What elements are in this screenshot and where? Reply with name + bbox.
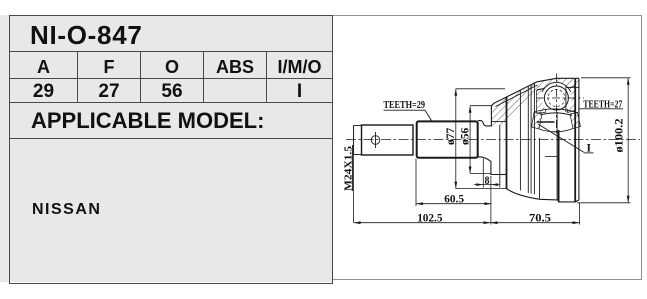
splined shaft section: [417, 121, 478, 157]
arrow 102.5 right: [484, 221, 491, 224]
window edge line f: [539, 138, 541, 199]
dim phi77 line: [455, 89, 457, 189]
svg-text:70.5: 70.5: [529, 212, 551, 224]
arrow phi77 bottom: [454, 182, 457, 189]
svg-text:8: 8: [485, 175, 490, 187]
window edge line d: [530, 85, 532, 194]
svg-text:ø77: ø77: [445, 128, 457, 146]
arrow 8 left: [476, 183, 483, 186]
svg-text:ø56: ø56: [460, 128, 472, 146]
inner race bore lower mark: [545, 156, 558, 158]
dim 102.5 extension left: [353, 126, 355, 223]
arrow 8 right: [491, 183, 498, 186]
stem center mark: [371, 136, 380, 145]
inner race second arc: [540, 113, 572, 116]
svg-text:ø100.2: ø100.2: [614, 118, 626, 152]
svg-text:60.5: 60.5: [444, 193, 464, 205]
label TEETH=29 leader: [425, 110, 432, 120]
front wall hatched section: [491, 82, 539, 126]
inner race left wedge: [532, 113, 543, 130]
threaded stem: [362, 125, 414, 155]
window edge line g: [556, 112, 558, 200]
arrow 60.5 left: [416, 202, 423, 205]
dim 60.5 line: [416, 203, 491, 205]
arrow 70.5 left: [491, 221, 498, 224]
inner race bottom arc: [539, 129, 573, 132]
cage section left wedge: [536, 89, 545, 114]
cage outer arc: [542, 82, 571, 92]
dim 8 extension right: [490, 176, 492, 225]
cage outer clearance (white punch): [541, 83, 572, 114]
ball horizontal centerline: [537, 97, 585, 99]
label I underline: [584, 152, 594, 154]
label TEETH=27 underline: [579, 108, 623, 110]
ball: [544, 86, 568, 110]
cage right edge: [565, 86, 567, 112]
dim 70.5 extension right: [579, 203, 581, 225]
top rim hatched band: [537, 78, 579, 89]
dim phi56 extension bottom: [470, 173, 491, 175]
cage section right wedge: [566, 87, 575, 113]
centerline axis: [346, 139, 640, 141]
window edge line h (thick): [558, 130, 560, 202]
label TEETH=29 underline: [384, 109, 426, 111]
svg-text:102.5: 102.5: [417, 212, 443, 224]
flange step edge (thick): [506, 97, 508, 189]
bell outline right+bottom profile: [478, 78, 579, 202]
inner race right wedge: [570, 113, 581, 129]
svg-text:TEETH=29: TEETH=29: [384, 99, 426, 111]
cone inner parallel edge: [496, 85, 538, 107]
inner race top arc: [534, 109, 578, 113]
inner race bore top edge: [537, 121, 555, 123]
right face inner edge (thick): [574, 79, 576, 202]
dim phi56 line: [469, 106, 471, 174]
arrow phi77 top: [454, 89, 457, 96]
dim phi100.2 line: [627, 78, 629, 203]
top rim band lower edge left: [537, 88, 545, 89]
bell bore top line: [491, 121, 507, 123]
window edge line a: [499, 125, 501, 187]
arrow 102.5 left: [354, 221, 361, 224]
arrow phi56 top: [469, 106, 472, 113]
window edge line b: [519, 91, 521, 191]
dim phi77 extension top: [456, 88, 505, 90]
arrow 70.5 right: [573, 221, 580, 224]
ball vertical centerline: [555, 74, 557, 136]
arrow phi100.2 top: [627, 78, 630, 85]
dim phi100.2 extension bottom: [577, 202, 631, 204]
bell outline top profile: [478, 78, 579, 126]
dim 102.5 and 70.5 line: [354, 222, 580, 224]
arrow phi100.2 bottom: [627, 196, 630, 203]
dim phi56 extension top: [470, 105, 491, 107]
arrow phi56 bottom: [469, 167, 472, 174]
dim 8 extension left: [482, 159, 484, 188]
label M24X1.5 underline: [352, 145, 354, 191]
window edge line e: [533, 83, 535, 194]
label I leader: [538, 124, 584, 152]
dim phi100.2 extension top: [581, 77, 631, 79]
top rim band lower edge right: [566, 86, 579, 88]
thread end cap: [354, 126, 362, 155]
dim 60.5 extension left: [415, 159, 417, 207]
dim phi77 extension bottom: [456, 188, 507, 190]
arrow 60.5 right: [484, 202, 491, 205]
window edge line c: [527, 86, 529, 193]
dim 8 line: [474, 184, 500, 186]
ball inner dashed circle: [548, 90, 565, 107]
